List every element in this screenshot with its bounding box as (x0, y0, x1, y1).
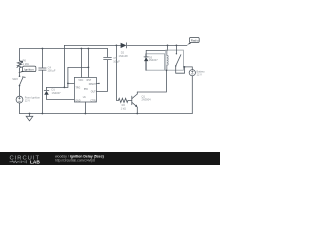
wire bottom rail (20, 113, 193, 115)
node collector-coil (166, 70, 168, 72)
footer bar (0, 152, 220, 165)
voltage source V1 From Ignition (16, 96, 23, 103)
diode D2 (121, 43, 127, 48)
diode box (146, 54, 165, 70)
flag Radio (187, 38, 199, 45)
svg-text:RST: RST (87, 80, 92, 82)
ground (29, 114, 31, 117)
diode D3 flyback (145, 54, 147, 57)
node y45-R2col (116, 45, 118, 47)
wire 555 OUT to C5 (96, 60, 107, 92)
svg-text:100 µF: 100 µF (47, 69, 56, 73)
svg-text:OUT: OUT (91, 91, 96, 93)
node jog-RST (88, 67, 90, 69)
svg-text:12 V: 12 V (197, 73, 203, 77)
relay contact terminals (176, 53, 177, 54)
relay coil (167, 55, 168, 65)
relay switch contact (175, 50, 177, 53)
svg-text:12 V: 12 V (25, 99, 31, 103)
wire 555 RST pin (87, 49, 89, 78)
switch SW2 (20, 78, 23, 86)
svg-text:VCC: VCC (78, 80, 83, 82)
wire 555 left pin (68, 82, 75, 84)
node bottom-Q1 (136, 113, 138, 115)
wire net y=45.4 right segment (127, 44, 187, 46)
node bottom-C4 (42, 113, 44, 115)
labels (12, 50, 205, 110)
capacitor C4 column (41, 49, 43, 68)
node trg-jog (67, 83, 69, 85)
wire 555 VCC pin (80, 49, 82, 78)
wire 555 GND stub (84, 102, 86, 114)
svg-text:1N4007: 1N4007 (52, 91, 62, 95)
wire D1 bottom to 555 (47, 98, 75, 100)
wire Q1 collector to relay (137, 70, 166, 92)
V1 plus minus (18, 71, 193, 102)
svg-text:SW2: SW2 (12, 77, 18, 81)
battery source (189, 70, 195, 76)
wire jog column (68, 67, 89, 87)
svg-text:10 µF: 10 µF (113, 59, 120, 63)
relay box SW1 (166, 50, 184, 70)
node bottom-555 (85, 113, 87, 115)
svg-text:2N3904: 2N3904 (142, 98, 152, 102)
resistor R6 (variable) (17, 60, 21, 69)
switch SW2 terminals (19, 75, 21, 77)
node trg-col64 (64, 87, 66, 89)
wire battery top (183, 66, 184, 68)
wire top rail (20, 49, 108, 61)
555 pin labels (75, 80, 97, 102)
wire 555 DIS stub (96, 82, 98, 84)
wire battery bottom (191, 76, 193, 114)
wire col x=116 to R2 (116, 45, 118, 100)
transistor Q1 (131, 96, 133, 105)
svg-text:TRG: TRG (75, 88, 80, 90)
pin stub tip (98, 83, 99, 84)
svg-text:1 kΩ: 1 kΩ (121, 106, 126, 110)
svg-text:1N4007: 1N4007 (149, 58, 159, 62)
svg-text:1N4148: 1N4148 (119, 54, 129, 58)
wire SW2 to V1 (19, 86, 21, 96)
wire R2 to Q1 (128, 99, 132, 101)
svg-text:R6: R6 (23, 58, 27, 62)
node rail-VCC (81, 48, 83, 50)
capacitor C5 (104, 59, 112, 61)
svg-text:C5: C5 (113, 56, 117, 60)
svg-text:Ignition: Ignition (24, 67, 34, 71)
node bottom-gnd (29, 113, 31, 115)
svg-text:GND: GND (75, 100, 80, 102)
svg-text:D2: D2 (121, 50, 125, 54)
svg-text:http://circuitlab.com/c/4vfp8: http://circuitlab.com/c/4vfp8 (55, 159, 95, 163)
node rail-C4 (42, 48, 44, 50)
resistor R2 (118, 98, 128, 102)
wire D1 top to jog (47, 86, 68, 88)
diode D1 (46, 87, 48, 90)
node y45-relaycoil (167, 45, 169, 47)
svg-text:DISCH: DISCH (89, 84, 96, 86)
node y45-relaysw (176, 45, 178, 47)
flag Ignition (18, 66, 36, 73)
svg-text:D1: D1 (52, 87, 56, 91)
svg-text:CTRL: CTRL (90, 100, 97, 102)
wire net y=45.4 left segment (64, 45, 120, 87)
svg-text:LAB: LAB (30, 159, 40, 165)
junction dots (19, 45, 186, 115)
op-amp U1 555 box (74, 77, 96, 102)
wire R6 to SW2 (19, 69, 21, 76)
wire relay common (175, 45, 177, 50)
svg-text:Radio: Radio (191, 38, 199, 42)
svg-text:1 MΩ: 1 MΩ (23, 62, 29, 66)
wire relay coil drive jog (167, 45, 169, 50)
wire V1 to bottom rail (19, 103, 21, 114)
node rail-RST (88, 48, 90, 50)
